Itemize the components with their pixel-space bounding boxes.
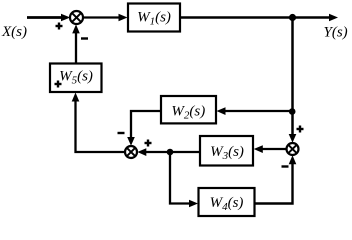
svg-text:Y(s): Y(s) [324, 25, 348, 41]
svg-text:X(s): X(s) [1, 24, 27, 40]
